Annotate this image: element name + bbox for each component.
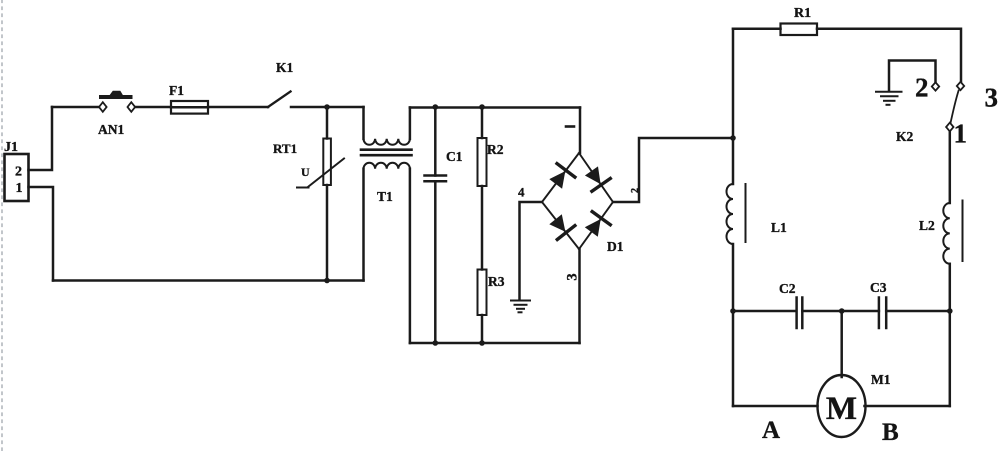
wire contact 2 bracket to ground [889, 61, 936, 92]
svg-text:2: 2 [915, 73, 929, 103]
wire top rail R1 right [817, 29, 961, 82]
connector J1 [5, 154, 29, 201]
choke T1 top winding [364, 107, 410, 145]
switch K2 contact 1 [946, 123, 953, 132]
inductor L2 [943, 201, 962, 264]
node motor tap [839, 308, 845, 314]
varistor RT1 [297, 107, 344, 281]
bridge D1 diamond [542, 153, 613, 249]
resistor R2 [478, 107, 487, 270]
svg-text:RT1: RT1 [273, 141, 297, 156]
wire secondary bottom rail [410, 342, 580, 345]
switch K1 blade [268, 92, 291, 108]
svg-text:T1: T1 [377, 189, 393, 204]
wire L1 down to C2 rail and bottom [732, 244, 735, 406]
wire J1 pin2 to top rail [29, 107, 53, 170]
wire top rail into bridge [579, 108, 582, 154]
svg-text:L2: L2 [919, 218, 935, 233]
svg-text:M: M [826, 391, 857, 427]
push button AN1 [99, 91, 135, 112]
svg-text:U: U [301, 165, 310, 179]
svg-text:R1: R1 [794, 6, 811, 21]
wire C3 to right [886, 310, 950, 313]
node R2 top [479, 104, 485, 110]
diode D1b (top-right) [585, 166, 610, 191]
wire motor tap down [840, 311, 843, 377]
diode D1c (left-bottom) [549, 214, 575, 239]
svg-text:1: 1 [954, 119, 968, 149]
scan edge dotted artifact [1, 0, 3, 451]
node output junction [730, 135, 736, 141]
svg-text:2: 2 [15, 165, 22, 180]
choke T1 core [361, 150, 412, 156]
wire left vertical of output loop [732, 29, 735, 184]
resistor R1 [781, 24, 818, 36]
node C1 bottom [433, 340, 439, 346]
ground at K2 [876, 92, 902, 105]
svg-text:3: 3 [985, 83, 999, 113]
svg-text:AN1: AN1 [98, 122, 124, 137]
switch K2 blade [951, 91, 959, 123]
wire K1 to choke [291, 106, 364, 109]
svg-text:4: 4 [518, 185, 525, 200]
wire bottom rail left of motor [733, 405, 818, 408]
capacitor C2 [797, 298, 803, 329]
node RT1 bottom junction [324, 278, 330, 284]
svg-text:F1: F1 [169, 83, 184, 98]
wire bottom rail primary [53, 279, 364, 282]
capacitor C3 [879, 298, 886, 329]
diode D1d (bottom-right) [585, 212, 611, 237]
wire AN1 to F1 [136, 106, 172, 109]
wire contact 1 to L2 [949, 131, 952, 203]
switch K2 contact 3 [957, 82, 964, 90]
wire secondary top rail [410, 106, 580, 109]
wire bridge terminal 2 to output node [613, 138, 733, 202]
svg-text:C3: C3 [870, 280, 887, 295]
node C2 rail left [730, 308, 736, 314]
svg-text:R3: R3 [488, 274, 505, 289]
svg-text:A: A [762, 417, 780, 444]
wire right vertical to C3 node [949, 311, 952, 406]
wire bridge terminal 3 down [578, 249, 581, 343]
svg-text:L1: L1 [771, 220, 787, 235]
fuse F1 [171, 101, 208, 114]
choke T1 bottom winding [364, 163, 410, 343]
svg-text:C2: C2 [779, 281, 796, 296]
wire top rail R1 left [733, 27, 781, 30]
svg-text:J1: J1 [4, 140, 18, 155]
node C1 top [433, 104, 439, 110]
resistor R3 [478, 270, 487, 344]
svg-text:M1: M1 [871, 372, 891, 387]
wire C2 to C3 [802, 310, 879, 313]
svg-text:C1: C1 [446, 149, 463, 164]
svg-text:K1: K1 [276, 60, 294, 75]
wire J1 pin1 to bottom rail [29, 187, 54, 281]
svg-text:B: B [882, 419, 899, 446]
node R3 bottom [479, 340, 485, 346]
wire L2 down [949, 264, 952, 311]
label minus at bridge top [566, 125, 574, 128]
ground at bridge [511, 301, 530, 313]
svg-text:R2: R2 [487, 142, 504, 157]
svg-text:1: 1 [16, 181, 23, 196]
motor M1 body [818, 375, 866, 437]
wire bottom rail right of motor [865, 405, 950, 408]
wire top rail to button [52, 106, 99, 109]
wire F1 to K1 [208, 106, 268, 109]
node RT1 top junction [324, 104, 330, 110]
node C3 right [947, 308, 953, 314]
wire C2 rail left [733, 310, 796, 313]
wire bridge terminal 4 to ground [520, 202, 543, 299]
svg-text:3: 3 [565, 273, 581, 280]
capacitor C1 [425, 107, 447, 343]
switch K2 contact 2 [932, 82, 939, 90]
inductor L1 [727, 184, 746, 244]
svg-text:K2: K2 [896, 129, 914, 144]
diode D1a (left-top) [549, 164, 575, 189]
svg-text:D1: D1 [607, 239, 624, 254]
